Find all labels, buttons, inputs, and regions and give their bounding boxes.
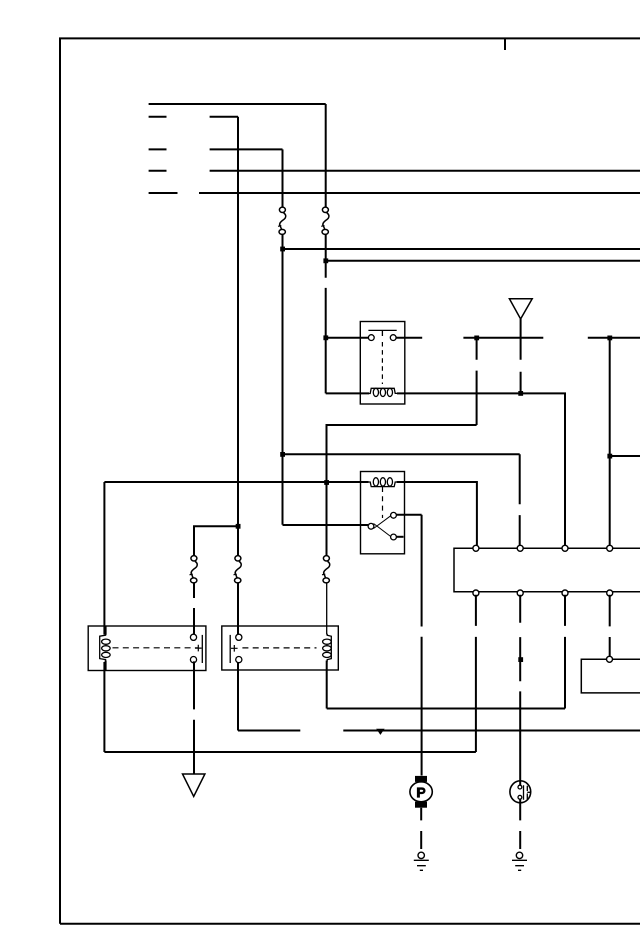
- relay R4 coil: [323, 634, 332, 662]
- relay R3 contact bar: [201, 635, 203, 663]
- J/B bottom terminal 2: [517, 590, 523, 596]
- wire horizontal y=730.5 to right edge: [343, 730, 640, 732]
- wire from relay R1 coil right to corner x=565: [397, 393, 565, 545]
- wire vertical x=282.5 from row3 to fuse F1: [282, 149, 284, 207]
- relay R1 plunger dashed link: [381, 342, 383, 384]
- wire from triangle T1 apex to dashed net: [520, 319, 522, 338]
- wire horizontal y=526.2 left to corner x=194: [194, 526, 238, 556]
- node dot C1: [236, 524, 241, 529]
- wire row2 horizontal: [210, 116, 238, 118]
- wire vertical x=325.7 below fuse F2: [325, 234, 327, 393]
- wire x=421.6 down to pump motor: [421, 515, 423, 776]
- wire vertical x=104.4 down to relay R3: [103, 482, 105, 635]
- junction block J/B connector box: [454, 548, 640, 591]
- relay R1 contact bar: [368, 330, 396, 336]
- wire stub from relay R1 pin 2: [396, 337, 422, 339]
- relay R3 coil wire top: [105, 626, 107, 635]
- J/B top terminal 1: [473, 545, 479, 551]
- dashed wire x=476.6 down from dot E1: [476, 338, 478, 425]
- relay R2 coil: [369, 478, 398, 487]
- ground triangle G1: [183, 774, 205, 796]
- wire below motor M1 dashed: [420, 808, 422, 849]
- ground G2: [414, 852, 429, 870]
- node dot E1 at (476.6,337.8): [474, 336, 479, 341]
- wire row2 dash stub: [149, 116, 167, 118]
- relay R2 plunger dashed link: [382, 487, 384, 518]
- fuse F2: [321, 207, 329, 234]
- node dot B1: [323, 258, 328, 263]
- relay R1 coil: [369, 388, 398, 396]
- wire below R3 pin lower dashed to ground: [193, 661, 195, 774]
- node dot E2 at (609.7,337.8): [607, 336, 612, 341]
- wire below fuse F5 into relay R4 coil: [326, 583, 328, 635]
- relay R3 coil: [100, 634, 111, 662]
- relay R3 contact cross: [195, 645, 202, 652]
- fuse F5: [322, 556, 330, 583]
- fuse F3: [190, 556, 198, 583]
- relay R4 contact cross: [231, 645, 238, 652]
- wire horizontal y=260.7 to right edge: [326, 260, 640, 262]
- dashed wire x=520.6 down to dot D1: [520, 338, 522, 394]
- wire row3 dash stub: [149, 148, 167, 150]
- wire horizontal y=482 from corner x=104.4 to relay R2 coil: [104, 481, 368, 483]
- dashed wire x=520.2 below J/B to washer motor: [519, 595, 521, 786]
- ground G3: [512, 852, 527, 870]
- washer pump motor M1 body rects: [415, 776, 427, 782]
- splice arrow S1 at (380.4,730.5): [376, 729, 384, 735]
- node tick top: [504, 38, 506, 50]
- wire vertical x=282.5 below fuse F1 down to corner y=524.7: [282, 234, 284, 524]
- relay R2 common pin: [368, 523, 374, 529]
- motor M1 circle: [410, 782, 432, 802]
- J/B top terminal 3: [562, 545, 568, 551]
- node dot D1 at (520.6,393.3): [518, 391, 523, 396]
- relay R1 contact terminal pins: [368, 335, 374, 341]
- wire stub from R2 lower throw: [396, 536, 403, 538]
- relay R3 link dashed: [113, 647, 199, 649]
- component box B2: [581, 659, 640, 693]
- box B2 terminal: [607, 656, 613, 662]
- washer motor M2 circle: [510, 781, 531, 803]
- relay R2 box: [361, 472, 405, 554]
- relay R2 upper throw pin: [391, 512, 397, 518]
- fuse F4: [234, 556, 242, 583]
- wire horizontal y=454.3 from dot A2 to corner x=519.7: [283, 453, 520, 455]
- motor M1 letter P: [417, 787, 426, 797]
- wire row4 horizontal to right edge: [210, 170, 640, 172]
- relay R2 lower throw pin: [391, 534, 397, 540]
- wire row3 horizontal: [210, 148, 283, 150]
- dashed net y=337.8 segment 2: [588, 337, 640, 339]
- relay R4 link dashed: [242, 647, 316, 649]
- wire horizontal y=708.5: [327, 708, 565, 710]
- wire below fuse F4 into relay R4: [237, 583, 239, 634]
- wire into R3 pin upper from fuse F3: [193, 608, 195, 634]
- motor M2 internal impeller glyph: [518, 781, 531, 800]
- wire horizontal y=730.5 dashed start: [238, 730, 300, 732]
- relay R4 contact pin upper: [236, 634, 242, 640]
- wire vertical x=325.7 from row1 to fuse F2: [325, 104, 327, 207]
- wire horizontal y=456 to right edge: [610, 455, 640, 457]
- J/B top terminal 2: [517, 545, 523, 551]
- wire row5 dash stub: [149, 192, 178, 194]
- wire into relay R1 coil y=393.4: [326, 392, 369, 394]
- wire vertical x=104.4 from relay R3 to corner y=752: [103, 662, 105, 752]
- dashed wire x=565 below J/B to corner y=708.5: [564, 595, 566, 709]
- wire from dot B2 to relay R1 contact pin 1: [326, 337, 369, 339]
- relay R3 contact pin lower: [190, 657, 196, 663]
- dashed wire x=609.7 below J/B to box B2: [609, 595, 611, 657]
- J/B top terminal 4: [607, 545, 613, 551]
- relay R4 contact pin lower: [236, 657, 242, 663]
- wire horizontal y=249 to right edge: [283, 248, 640, 250]
- relay R4 box: [222, 626, 338, 670]
- wire from relay R2 coil right to corner x=476.9: [397, 482, 477, 546]
- J/B bottom terminal 3: [562, 590, 568, 596]
- dashed wire below fuse F3: [193, 583, 195, 598]
- J/B bottom terminal 1: [473, 590, 479, 596]
- triangle connector symbol T1: [509, 299, 532, 319]
- node dot E3 at (609.7,456): [607, 454, 612, 459]
- wire row1 horizontal y=104: [149, 103, 326, 105]
- wire below R4 coil dashed to corner y=708.5: [326, 671, 328, 709]
- wire horizontal y=425: [327, 425, 477, 556]
- relay R2 contact arm diagonals: [374, 515, 393, 538]
- fuse F1: [278, 207, 286, 234]
- dashed wire x=519.7 down to connector: [519, 454, 521, 545]
- wire horizontal y=525 from corner x=282.5 to relay R2 common: [283, 524, 369, 526]
- wire vertical x=238 from row2 down to dot y=526.2: [237, 117, 239, 556]
- node dot A1: [280, 247, 285, 252]
- wire below motor M2 dashed: [519, 799, 521, 849]
- wire vertical x=609.7 from dot E2 to connector: [609, 338, 611, 546]
- relay R3 coil wire bottom: [105, 661, 107, 672]
- relay R3 contact pin upper: [190, 634, 196, 640]
- node dot W1 splice at (520.6,659.5): [518, 657, 523, 662]
- node dot C2 at (326.5,482.4): [324, 480, 329, 485]
- wire below R4 pin lower to corner y=730.5: [237, 662, 239, 731]
- wire from R2 upper throw to corner x=421.6: [396, 514, 421, 516]
- node dot A2 at y=454.3: [280, 452, 285, 457]
- relay R3 box: [88, 626, 206, 671]
- wire horizontal y=752: [104, 751, 476, 753]
- wire row4 dash stub: [149, 170, 167, 172]
- J/B bottom terminal 4: [607, 590, 613, 596]
- dashed net y=337.8 segment 1: [463, 337, 543, 339]
- dashed wire x=475.9 below J/B to corner y=752: [475, 595, 477, 752]
- wire row5 horizontal to right edge: [199, 192, 640, 194]
- relay R4 coil wire bottom: [326, 661, 328, 672]
- node dot B2 on x=325.7 at y=337.7: [323, 335, 328, 340]
- relay R4 contact bar: [229, 635, 231, 663]
- relay R1 box: [360, 322, 405, 405]
